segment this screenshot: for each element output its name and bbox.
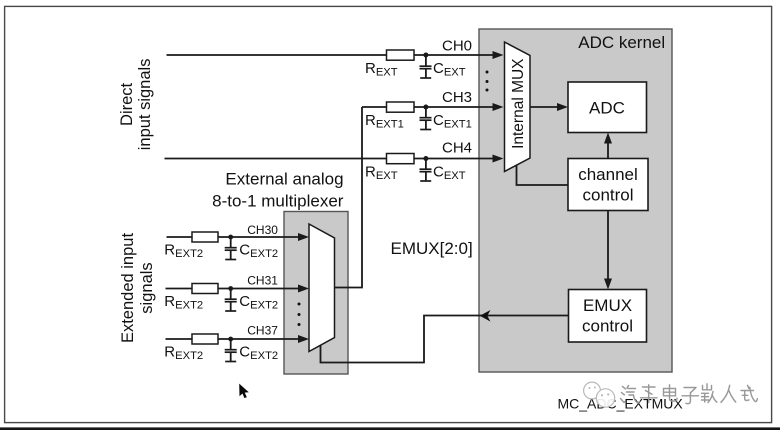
label Direct input signals <box>118 59 154 151</box>
resistor REXT CH0 <box>387 50 415 60</box>
capacitor CEXT CH0 <box>420 55 432 78</box>
capacitor CEXT2 CH31 <box>225 289 237 312</box>
capacitor CEXT2 CH37 <box>225 339 237 362</box>
capacitor CEXT CH4 <box>420 159 432 182</box>
wire channel control to EMUX control <box>607 211 609 282</box>
arrow CH3 into internal MUX <box>493 103 504 111</box>
arrow CH4 into internal MUX <box>493 155 504 163</box>
ADC box <box>568 82 647 133</box>
arrow CH37 into external MUX <box>298 335 309 343</box>
label External analog 8-to-1 multiplexer <box>212 170 344 211</box>
ellipsis internal <box>486 71 489 92</box>
wire CH37 <box>166 338 301 340</box>
external multiplexer block <box>284 212 348 375</box>
arrow into ADC <box>557 103 568 111</box>
resistor REXT CH4 <box>387 154 415 164</box>
capacitor CEXT2 CH30 <box>225 237 237 260</box>
resistor REXT2 CH31 <box>192 284 218 294</box>
arrow CH30 into external MUX <box>298 233 309 241</box>
wire channel control to ADC <box>607 141 609 159</box>
wire CH4 <box>165 158 495 160</box>
wire internal MUX to ADC <box>530 106 559 108</box>
wire EMUX control select line <box>321 316 569 363</box>
wire CH0 <box>167 54 495 56</box>
junction node CH3 <box>423 105 428 110</box>
wire CH31 <box>166 288 301 290</box>
EMUX control box <box>569 290 647 343</box>
mouse cursor <box>239 384 249 399</box>
resistor REXT2 CH30 <box>192 232 218 242</box>
arrow CH0 into internal MUX <box>493 51 504 59</box>
channel control box <box>568 159 648 211</box>
junction node CH30 <box>228 235 233 240</box>
resistor REXT2 CH37 <box>192 334 218 344</box>
wire CH3 <box>362 106 494 108</box>
arrow channel control to ADC <box>604 133 612 144</box>
ellipsis external <box>298 303 301 327</box>
ADC kernel block <box>479 29 672 372</box>
label Extended input signals <box>119 233 156 344</box>
arrow EMUX select leaving kernel <box>480 310 491 322</box>
wire internal MUX to channel control <box>517 165 569 185</box>
wire EMUX output to CH3 <box>335 107 363 288</box>
junction node CH0 <box>423 53 428 58</box>
junction node CH4 <box>423 156 428 161</box>
wire CH30 <box>167 236 301 238</box>
resistor REXT1 CH3 <box>387 102 415 112</box>
external MUX U2 <box>309 224 335 352</box>
internal MUX U1 <box>505 42 531 172</box>
capacitor CEXT1 CH3 <box>420 107 432 130</box>
junction node CH37 <box>228 337 233 342</box>
arrow CH31 into external MUX <box>298 285 309 293</box>
arrow channel control to EMUX control <box>604 279 612 290</box>
junction node CH31 <box>228 286 233 291</box>
